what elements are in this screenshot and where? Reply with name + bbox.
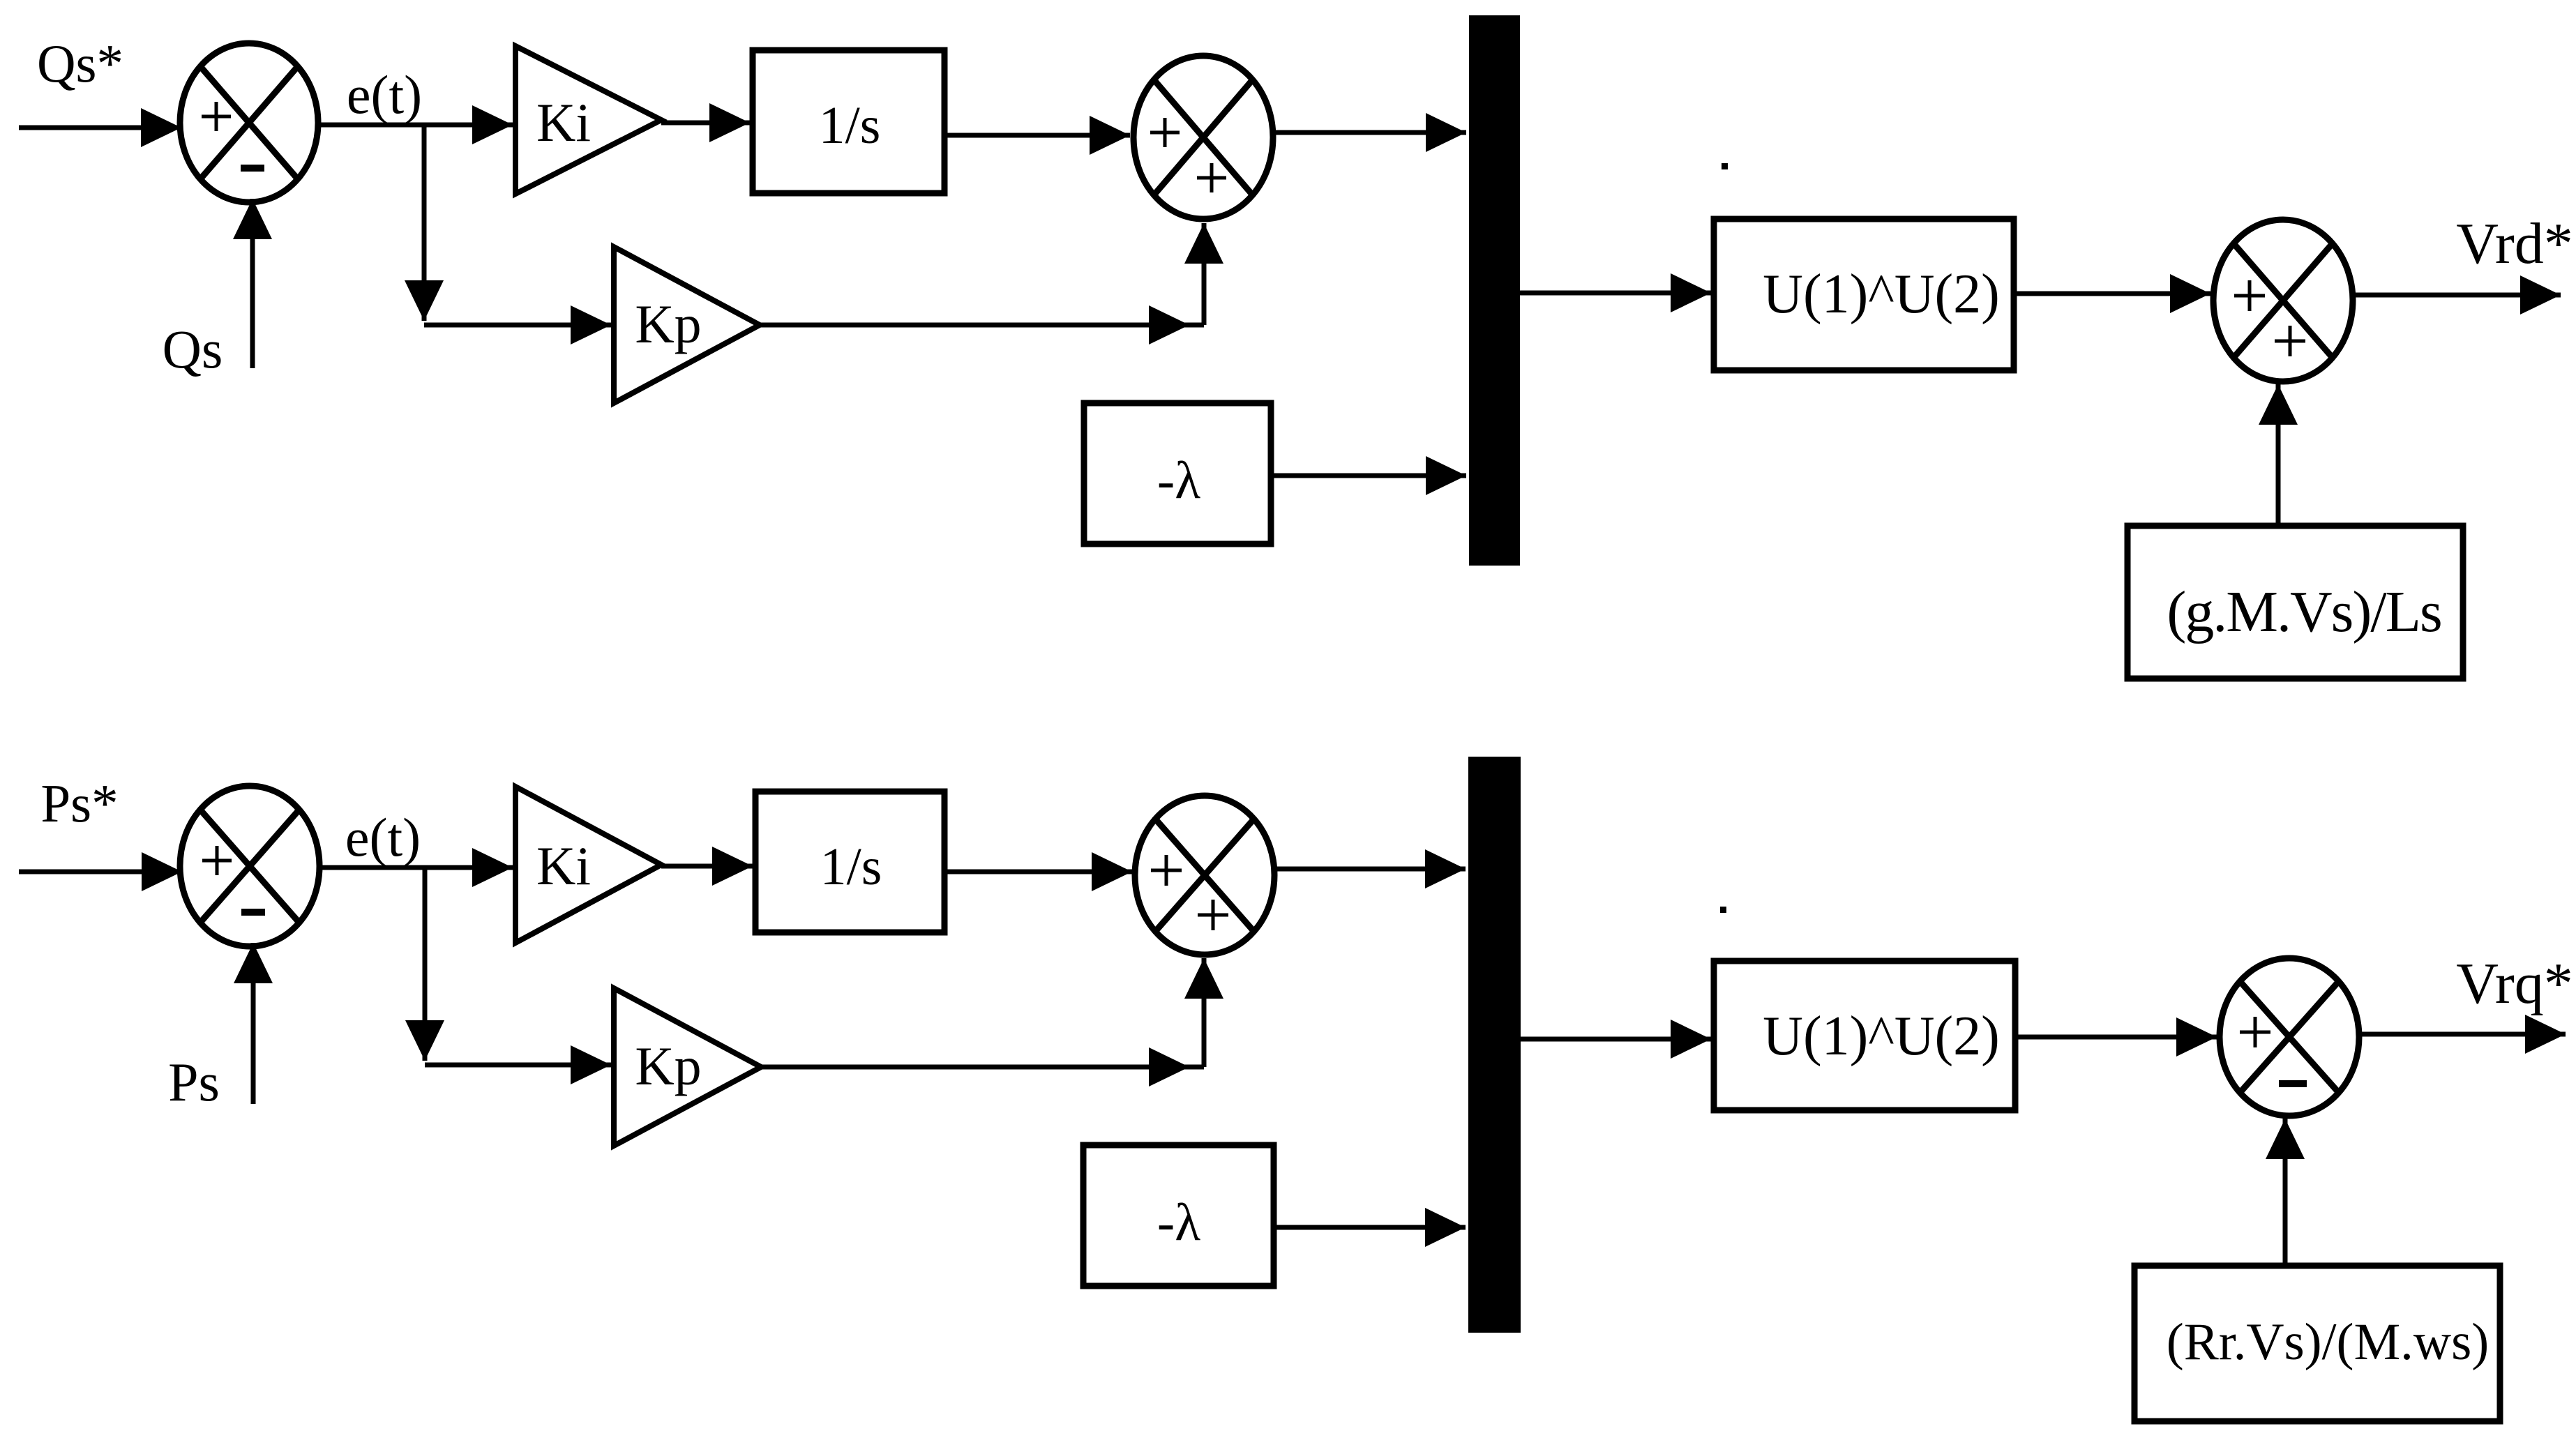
svg-text:Kp: Kp [635, 294, 701, 354]
S3 plus sign (left) [2234, 280, 2265, 311]
summing junction S1b [180, 786, 319, 946]
wire: Kib to integrator b [661, 864, 753, 869]
S2b plus sign (left) [1151, 855, 1182, 886]
summing junction S3 [2213, 220, 2353, 381]
svg-text:e(t): e(t) [347, 64, 422, 125]
summing junction S1 [180, 43, 318, 202]
svg-text:-λ: -λ [1157, 451, 1200, 510]
gain Kp (top) [614, 247, 760, 403]
wire: -λ b to mux bar b [1274, 1225, 1466, 1230]
wire: U(1)^U(2) b to S3b [2015, 1035, 2217, 1040]
svg-text:U(1)^U(2): U(1)^U(2) [1763, 1006, 2000, 1067]
wire: riser up into S2b [1202, 958, 1207, 1067]
wire: Kp output to riser (top) [760, 323, 1204, 328]
integrator block 1/s (bottom) [755, 792, 944, 932]
wire: S2b to mux bar b [1274, 867, 1466, 872]
svg-text:Ki: Ki [536, 92, 591, 153]
block (g.M.Vs)/Ls [2127, 526, 2463, 679]
svg-text:Qs*: Qs* [37, 33, 123, 93]
S2b plus sign (bottom) [1198, 900, 1228, 930]
svg-text:U(1)^U(2): U(1)^U(2) [1763, 264, 2000, 325]
wire: S2 to mux bar [1273, 130, 1466, 135]
S3 plus sign (bottom) [2275, 326, 2305, 356]
wire: integrator to S2 [944, 133, 1130, 138]
wire: Qs feedback up arrow into S1 bottom [250, 199, 255, 368]
mux bar (top) [1469, 15, 1520, 566]
wire: Ps* input arrow into S1b [19, 870, 182, 874]
gain Kp (bottom) [614, 988, 761, 1146]
speck (top) [1722, 163, 1728, 169]
arrowhead on Kpb output (bottom) [1149, 1047, 1189, 1086]
block -λ (bottom) [1083, 1145, 1274, 1286]
svg-text:Kp: Kp [635, 1036, 701, 1096]
svg-text:Ki: Ki [536, 835, 591, 896]
wire: branch to Kp [424, 323, 611, 328]
S2 plus sign (left) [1150, 118, 1180, 147]
S3b plus sign (left) [2240, 1017, 2270, 1047]
block U(1)^U(2) (top) [1714, 219, 2014, 370]
wire: S3 output Vrd* [2353, 293, 2561, 298]
summing junction S3b [2220, 958, 2359, 1116]
summing junction S2 [1133, 56, 1273, 219]
svg-text:(g.M.Vs)/Ls: (g.M.Vs)/Ls [2167, 580, 2441, 644]
integrator block 1/s (top) [753, 50, 944, 193]
wire: S3b output Vrq* [2359, 1032, 2566, 1037]
mux bar (bottom) [1468, 757, 1521, 1333]
gain Ki (bottom) [515, 787, 661, 943]
svg-text:1/s: 1/s [819, 96, 881, 155]
S1b minus sign [241, 909, 265, 916]
gain Ki (top) [515, 46, 661, 194]
svg-text:Qs: Qs [163, 319, 223, 379]
block U(1)^U(2) (bottom) [1714, 961, 2015, 1110]
wire: Ps feedback up arrow into S1b bottom [251, 943, 256, 1104]
wire: branch down from e(t) bottom [423, 868, 428, 1061]
wire: mux bar b to U(1)^U(2) b [1521, 1037, 1711, 1042]
summing junction S2b [1135, 796, 1274, 955]
wire: e(t) from S1b to Kib [319, 865, 513, 870]
S3b minus sign (bottom) [2279, 1080, 2307, 1087]
S1 minus sign [241, 165, 264, 172]
wire: Kpb output to riser (bottom) [761, 1065, 1204, 1070]
wire: Ki to integrator [661, 121, 750, 126]
svg-text:Vrq*: Vrq* [2456, 951, 2573, 1016]
arrowhead on Kp output (top) [1149, 305, 1189, 344]
wire: branch to Kpb [425, 1063, 611, 1068]
wire: U(1)^U(2) to S3 [2014, 291, 2210, 296]
wire: -λ to mux bar [1271, 474, 1466, 478]
wire: (Rr.Vs)/(M.ws) up into S3b [2283, 1119, 2288, 1266]
wire: (g.M.Vs)/Ls up into S3 [2276, 384, 2281, 526]
block (Rr.Vs)/(M.ws) [2134, 1266, 2500, 1421]
svg-text:Ps*: Ps* [40, 773, 118, 833]
S2 plus sign (bottom) [1197, 163, 1226, 192]
svg-text:e(t): e(t) [345, 807, 421, 868]
speck (bottom) [1720, 907, 1726, 913]
svg-text:Ps: Ps [168, 1052, 220, 1112]
wire: integrator b to S2b [944, 870, 1132, 874]
wire: e(t) from S1 to Ki [318, 123, 513, 128]
svg-text:-λ: -λ [1157, 1193, 1200, 1252]
wire: riser up into S2 [1202, 223, 1207, 325]
svg-text:(Rr.Vs)/(M.ws): (Rr.Vs)/(M.ws) [2167, 1313, 2490, 1371]
S1 plus sign [202, 102, 231, 131]
svg-text:Vrd*: Vrd* [2456, 211, 2573, 276]
S1b plus sign [202, 846, 232, 875]
wire: Qs* input arrow into S1 [19, 126, 181, 130]
wire: branch down from e(t) [422, 125, 427, 321]
block -λ (top) [1084, 403, 1271, 544]
wire: mux bar to U(1)^U(2) [1520, 291, 1711, 296]
svg-text:1/s: 1/s [820, 838, 882, 896]
